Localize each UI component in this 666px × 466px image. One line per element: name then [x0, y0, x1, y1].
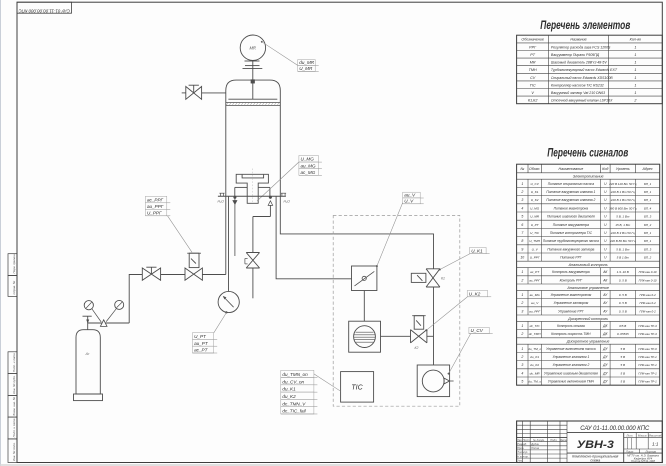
svg-text:U_TIC: U_TIC: [530, 231, 540, 235]
svg-text:du_K2: du_K2: [282, 394, 296, 399]
vent valve (napusk): [245, 253, 260, 269]
wire air inlet horizontal: [253, 216, 271, 218]
label du_MR: [298, 60, 319, 66]
svg-text:Обозн.: Обозн.: [529, 167, 540, 171]
leader V attach dot: [376, 265, 378, 267]
svg-text:Турбомолекулярный насос Edward: Турбомолекулярный насос Edwards EXT: [551, 68, 618, 72]
svg-text:№ докум.: № докум.: [533, 438, 545, 442]
wire TMN to K2: [381, 335, 411, 337]
svg-text:ПЛК-кан 0-10: ПЛК-кан 0-10: [639, 270, 657, 274]
reducer PPG inlet wire: [88, 322, 130, 324]
leader V: [377, 203, 403, 266]
valve K1 actuator: [411, 273, 426, 282]
air inlet port (dot): [269, 196, 272, 199]
left margin column: Перв. примен.: [8, 254, 17, 276]
svg-text:Питание РРГ: Питание РРГ: [560, 256, 582, 260]
svg-text:Управление РРГ: Управление РРГ: [558, 309, 584, 313]
svg-text:Группа МТ11-19М: Группа МТ11-19М: [631, 459, 655, 463]
svg-text:du_K2: du_K2: [530, 363, 539, 367]
wire gauge tap: [228, 196, 230, 291]
svg-text:6: 6: [521, 223, 523, 227]
svg-text:4: 4: [521, 206, 523, 210]
vessel gasket band: [226, 102, 280, 105]
svg-text:ac_РРГ: ac_РРГ: [529, 278, 540, 282]
svg-text:ПЛК-кан 0-2: ПЛК-кан 0-2: [639, 293, 656, 297]
manual valve (gas line): [142, 267, 160, 280]
svg-text:Электропитание: Электропитание: [573, 175, 604, 179]
svg-text:ac_PT: ac_PT: [530, 270, 540, 274]
left margin column: Инв. № дубл.: [8, 374, 17, 396]
svg-text:К2: К2: [415, 346, 419, 350]
svg-text:U: U: [604, 182, 607, 186]
svg-text:0..5 В: 0..5 В: [619, 293, 627, 297]
svg-text:Инв. № подл.: Инв. № подл.: [12, 442, 16, 461]
svg-text:Т.контр.: Т.контр.: [517, 450, 528, 454]
svg-text:du_K1: du_K1: [530, 355, 539, 359]
leader K1 attach dot: [439, 269, 441, 271]
wire V to TMN: [363, 291, 365, 322]
svg-text:5 В: 5 В: [621, 363, 626, 367]
svg-text:БП_3: БП_3: [644, 247, 652, 251]
svg-text:U: U: [604, 223, 607, 227]
svg-text:Контроль вакуумметра: Контроль вакуумметра: [552, 270, 590, 274]
svg-text:САУ 01-11.00.00.000 КПС: САУ 01-11.00.00.000 КПС: [580, 425, 649, 432]
svg-text:2: 2: [633, 99, 636, 103]
svg-text:БП_1: БП_1: [644, 190, 652, 194]
svg-text:Вакуумметр Пирани Р505ПД: Вакуумметр Пирани Р505ПД: [551, 53, 600, 57]
svg-text:5 В: 5 В: [621, 347, 626, 351]
svg-text:dc_TМН: dc_TМН: [529, 332, 541, 336]
svg-text:H₂O: H₂O: [284, 199, 291, 203]
svg-text:1: 1: [634, 53, 636, 57]
flow regulator PPG actuator: [187, 253, 201, 267]
svg-text:Отсечной вакуумный клапан LSP1: Отсечной вакуумный клапан LSP16X: [551, 99, 613, 103]
svg-text:7: 7: [521, 231, 524, 235]
svg-text:АК: АК: [602, 278, 608, 282]
svg-text:Справ. №: Справ. №: [12, 280, 16, 294]
svg-text:1: 1: [634, 45, 636, 49]
leader CV attach dot: [448, 373, 450, 375]
svg-text:БП_1: БП_1: [644, 198, 652, 202]
svg-text:Контроль скорость ТМН: Контроль скорость ТМН: [551, 332, 591, 336]
svg-text:2: 2: [520, 278, 523, 282]
label U_CV: [469, 327, 493, 333]
title block: [517, 421, 663, 463]
wire to vent valve: [252, 217, 254, 253]
svg-text:U: U: [604, 231, 607, 235]
svg-text:9: 9: [521, 247, 523, 251]
vessel (vacuum chamber) outline: [226, 80, 280, 196]
svg-text:dc_TIC: dc_TIC: [530, 324, 541, 328]
svg-text:U: U: [604, 247, 607, 251]
stamp box (rotated doc number): [17, 2, 72, 13]
svg-text:УВН-3: УВН-3: [577, 439, 614, 451]
label U_K1: [470, 247, 490, 253]
svg-text:ТМН: ТМН: [529, 68, 537, 72]
leader K1: [440, 254, 470, 270]
svg-text:dc_TMN_V: dc_TMN_V: [282, 401, 306, 406]
svg-text:8: 8: [521, 239, 523, 243]
svg-text:Питание вакуумного затвора: Питание вакуумного затвора: [547, 247, 594, 251]
svg-text:0..5 В: 0..5 В: [619, 309, 627, 313]
svg-text:схема: схема: [590, 459, 600, 463]
svg-text:5: 5: [521, 380, 523, 384]
svg-text:dc_TIC_fail: dc_TIC_fail: [282, 409, 306, 414]
svg-text:Масштаб: Масштаб: [648, 433, 662, 437]
svg-text:1.9..10 В: 1.9..10 В: [617, 270, 629, 274]
svg-text:du_TМ_o: du_TМ_o: [528, 380, 541, 384]
svg-text:U: U: [604, 256, 607, 260]
gas bottle Ar: [74, 330, 103, 401]
svg-text:5: 5: [521, 215, 523, 219]
label ac_MG: [299, 169, 322, 176]
wire K1 down to CV: [433, 287, 435, 365]
svg-text:ДУ: ДУ: [602, 347, 608, 351]
svg-text:Питание вакуумного клапана 1: Питание вакуумного клапана 1: [546, 190, 595, 194]
magnetron MG window recess: [242, 175, 264, 178]
leader PPG: [168, 216, 193, 253]
svg-text:ПЛК-кан ТР-3: ПЛК-кан ТР-3: [638, 324, 657, 328]
coupling: [243, 61, 263, 68]
svg-text:3: 3: [521, 198, 523, 202]
svg-text:Уровень: Уровень: [616, 167, 630, 171]
svg-text:Управление включением ТМН: Управление включением ТМН: [548, 380, 595, 384]
svg-text:au_PPГ: au_PPГ: [147, 204, 164, 209]
svg-text:Дата: Дата: [559, 438, 568, 442]
svg-text:220 В 80 Вт 50 Гц: 220 В 80 Вт 50 Гц: [609, 239, 636, 243]
svg-text:Аналоговый контроль: Аналоговый контроль: [568, 263, 608, 267]
svg-text:au_V: au_V: [404, 193, 416, 198]
svg-text:U_V: U_V: [404, 198, 414, 203]
left margin column: Подп. и дата: [8, 417, 17, 439]
svg-text:ДК: ДК: [602, 324, 608, 328]
svg-text:ac_MG: ac_MG: [301, 170, 316, 175]
left margin column: Взам. инв. №: [8, 395, 17, 417]
wire between gas valves: [161, 274, 185, 276]
svg-text:Управление затвором: Управление затвором: [554, 301, 589, 305]
svg-text:MR: MR: [249, 46, 256, 51]
svg-text:ДУ: ДУ: [602, 355, 608, 359]
svg-text:5 В: 5 В: [621, 380, 626, 384]
label U_MR: [298, 66, 319, 72]
svg-text:au_V: au_V: [531, 301, 539, 305]
svg-text:Контроль РРГ: Контроль РРГ: [560, 278, 583, 282]
svg-text:du_MR: du_MR: [530, 371, 541, 375]
left margin column: Инв. № подл.: [8, 439, 17, 463]
svg-text:Управление магнетроном: Управление магнетроном: [550, 293, 592, 297]
leader K2: [426, 297, 467, 330]
left margin column: Справ. №: [8, 276, 17, 297]
valve K1: [426, 269, 445, 287]
valve VE (chamber vent, manual): [186, 85, 202, 99]
svg-text:au_PT: au_PT: [194, 341, 209, 346]
svg-text:du_CV_on: du_CV_on: [282, 379, 304, 384]
svg-text:Питание магнетрона: Питание магнетрона: [554, 206, 589, 210]
svg-text:au_MG: au_MG: [301, 163, 316, 168]
svg-text:БП_4: БП_4: [644, 206, 652, 210]
svg-text:Лит.: Лит.: [625, 433, 633, 437]
svg-text:4: 4: [521, 371, 523, 375]
svg-text:АУ: АУ: [602, 301, 608, 305]
svg-text:АУ: АУ: [602, 293, 608, 297]
label du_K2: [281, 392, 318, 399]
svg-text:du_K1: du_K1: [282, 387, 296, 392]
svg-text:ДУ: ДУ: [602, 371, 608, 375]
label au_V: [403, 192, 424, 198]
controller TIC: [341, 372, 374, 403]
turbomolecular pump TMN: [349, 321, 381, 352]
svg-text:АУ: АУ: [602, 309, 608, 313]
svg-text:1: 1: [634, 76, 636, 80]
svg-text:ПЛК-кан ТР-1: ПЛК-кан ТР-1: [638, 371, 657, 375]
svg-text:1: 1: [634, 61, 636, 65]
svg-text:ПЛК-кан ТР-1: ПЛК-кан ТР-1: [638, 380, 657, 384]
label U_V: [403, 198, 424, 204]
svg-text:U_MG: U_MG: [301, 157, 315, 162]
svg-text:U_TMН: U_TMН: [529, 239, 540, 243]
svg-text:ПЛК-кан ТР-1: ПЛК-кан ТР-1: [638, 355, 657, 359]
svg-text:U_PPГ: U_PPГ: [147, 210, 162, 215]
svg-text:2: 2: [520, 332, 523, 336]
svg-text:Подп. и дата: Подп. и дата: [12, 418, 16, 437]
label au_PPГ: [145, 203, 170, 210]
svg-text:U: U: [604, 215, 607, 219]
svg-text:V: V: [531, 91, 534, 95]
leader K2 attach dot: [426, 329, 428, 331]
label dc_TIC_fail: [281, 407, 318, 414]
svg-text:Вакуумный затвор Vat 210 DN63: Вакуумный затвор Vat 210 DN63: [551, 91, 605, 95]
leader PT attach dot: [225, 311, 227, 313]
svg-text:1: 1: [521, 270, 523, 274]
wire valve VE to vessel: [202, 92, 226, 94]
svg-text:1: 1: [521, 347, 523, 351]
svg-text:ПЛК-кан 0-2: ПЛК-кан 0-2: [639, 301, 656, 305]
svg-text:Наименование: Наименование: [558, 167, 583, 171]
svg-text:РРГ: РРГ: [529, 45, 537, 49]
svg-text:АК: АК: [602, 270, 608, 274]
svg-text:U_K1: U_K1: [531, 190, 539, 194]
svg-text:Н.контр.: Н.контр.: [517, 454, 529, 458]
node: shaft entry (black square): [251, 80, 255, 84]
svg-text:Шаговый двигатель 28BYJ-48-5V: Шаговый двигатель 28BYJ-48-5V: [551, 61, 607, 65]
svg-text:220 В 1 Вт 50 Гц: 220 В 1 Вт 50 Гц: [610, 190, 635, 194]
vessel inner flange line: [228, 98, 277, 100]
svg-text:U: U: [604, 206, 607, 210]
air inlet arrow up: [268, 201, 273, 206]
label U_MG: [299, 156, 322, 163]
magnetron MG centerline: [252, 169, 254, 204]
bottle valve: [83, 316, 92, 330]
leader CV: [449, 334, 471, 374]
water drain port (dot): [234, 196, 237, 199]
wire PPG to chamber: [202, 274, 225, 276]
wire chamber to valve K1: [280, 196, 433, 268]
svg-text:5 В, 1 Вт: 5 В, 1 Вт: [616, 247, 630, 251]
svg-text:ПЛК-кан ТР-0: ПЛК-кан ТР-0: [638, 347, 657, 351]
svg-text:U_K2: U_K2: [531, 198, 539, 202]
leader TIC: [314, 374, 341, 391]
svg-text:U_PT: U_PT: [531, 223, 540, 227]
leader PT: [214, 313, 227, 333]
svg-text:H₂O: H₂O: [218, 199, 225, 203]
svg-text:5 В 1 Вт: 5 В 1 Вт: [617, 256, 630, 260]
reducer gauge 2: [115, 300, 124, 309]
label ac_PT: [193, 346, 218, 353]
svg-text:5 В, 1 Вт: 5 В, 1 Вт: [616, 215, 630, 219]
svg-text:220 В 120 Вт 50 Гц: 220 В 120 Вт 50 Гц: [608, 182, 637, 186]
svg-text:220 В 3 Вт 50 Гц: 220 В 3 Вт 50 Гц: [610, 231, 635, 235]
water drain wire: [234, 199, 236, 257]
svg-text:1: 1: [634, 68, 636, 72]
svg-text:Дискретный контроль: Дискретный контроль: [567, 317, 608, 321]
svg-text:Утв.: Утв.: [517, 458, 523, 462]
svg-text:U_K2: U_K2: [469, 291, 481, 296]
label U_K2: [467, 291, 491, 297]
vent valve outlet wire: [252, 268, 254, 298]
svg-text:U_CV: U_CV: [531, 182, 540, 186]
wire air inlet down: [269, 205, 271, 216]
svg-text:Питание контроллера ТIC: Питание контроллера ТIC: [550, 231, 593, 235]
svg-text:Ar: Ar: [85, 351, 91, 356]
svg-text:Питание шагового двигателя: Питание шагового двигателя: [547, 215, 595, 219]
svg-text:ТIС: ТIС: [351, 384, 363, 391]
svg-text:Подп.: Подп.: [550, 438, 557, 442]
svg-text:U_CV: U_CV: [471, 328, 484, 333]
wire riser to gas line: [129, 275, 142, 324]
svg-text:U_K1: U_K1: [471, 248, 483, 253]
wire reducer to gauge 2: [106, 309, 116, 322]
label au_MG: [299, 162, 322, 169]
svg-text:10: 10: [520, 256, 524, 260]
svg-text:Питание турбомолекулярного нас: Питание турбомолекулярного насоса: [543, 239, 599, 243]
svg-text:MR: MR: [530, 61, 536, 65]
magnetron MG body (T-shape): [236, 174, 268, 203]
valve K2: [411, 330, 427, 350]
svg-text:К1: К1: [441, 277, 445, 281]
table: Perechen elementov: [517, 35, 663, 104]
svg-text:U: U: [604, 198, 607, 202]
svg-text:Перечень элементов: Перечень элементов: [540, 20, 630, 32]
bottom flange plate: [218, 195, 286, 197]
svg-text:du_TМ_o: du_TМ_o: [528, 347, 541, 351]
svg-text:1:1: 1:1: [652, 441, 659, 446]
svg-text:БП_2: БП_2: [644, 223, 652, 227]
pressure gauge PT: [218, 291, 239, 312]
svg-text:du_MR: du_MR: [299, 60, 314, 65]
svg-text:Код: Код: [602, 167, 608, 171]
reducer gauge 1: [84, 301, 93, 310]
svg-text:Подп. и дата: Подп. и дата: [12, 353, 16, 372]
svg-text:3: 3: [521, 363, 523, 367]
wire chamber to gate valve V: [276, 196, 351, 278]
svg-text:Обозначение: Обозначение: [521, 38, 544, 42]
svg-text:№: №: [520, 167, 524, 171]
svg-text:Кол-во: Кол-во: [630, 38, 641, 42]
svg-text:Аналоговое управление: Аналоговое управление: [566, 286, 608, 290]
svg-text:2: 2: [520, 355, 523, 359]
svg-text:БП_1: БП_1: [644, 231, 652, 235]
svg-text:2: 2: [520, 301, 523, 305]
svg-text:Дудин: Дудин: [530, 442, 539, 446]
svg-text:Питание вакуумного клапана 2: Питание вакуумного клапана 2: [546, 198, 595, 202]
svg-text:du_TMN_on: du_TMN_on: [282, 372, 308, 377]
svg-text:Лист: Лист: [522, 438, 531, 442]
svg-text:1: 1: [521, 293, 523, 297]
label dc_TMN_V: [281, 399, 318, 406]
scroll pump CV: [417, 365, 453, 397]
svg-text:БП_1: БП_1: [644, 182, 652, 186]
svg-text:Адрес: Адрес: [642, 167, 653, 171]
page edge: [0, 0, 2, 466]
label au_PT: [193, 339, 218, 346]
wire gas inlet (left wall down): [225, 196, 227, 274]
svg-text:au_РРГ: au_РРГ: [529, 309, 540, 313]
flange end left: [219, 193, 224, 196]
svg-text:2: 2: [520, 190, 523, 194]
svg-text:1: 1: [521, 182, 523, 186]
svg-text:U_V: U_V: [532, 247, 539, 251]
svg-text:au_MG: au_MG: [530, 293, 541, 297]
svg-text:U_MR: U_MR: [299, 66, 313, 71]
svg-text:Спиральный насос Edwards XDS10: Спиральный насос Edwards XDS100B: [551, 76, 613, 80]
wire reducer to gauge 1: [92, 309, 101, 322]
svg-text:Пров.: Пров.: [517, 446, 524, 450]
svg-text:Управление клапаном 2: Управление клапаном 2: [553, 363, 590, 367]
svg-text:ac_PPГ: ac_PPГ: [147, 197, 164, 202]
svg-text:U_РРГ: U_РРГ: [530, 256, 540, 260]
svg-text:ПЛК-кан 0-2: ПЛК-кан 0-2: [639, 309, 656, 313]
dashed enclosure (pump unit): [333, 216, 460, 407]
magnetron MG skirt flange: [235, 187, 270, 196]
svg-text:Управление включением насоса: Управление включением насоса: [546, 347, 596, 351]
svg-text:U_MR: U_MR: [530, 215, 540, 219]
svg-text:1: 1: [521, 324, 523, 328]
table: Perechen signalov: [517, 164, 660, 385]
svg-text:Контроллер насосов TIC RS232: Контроллер насосов TIC RS232: [551, 83, 604, 87]
svg-text:3: 3: [521, 309, 523, 313]
label du_K1: [281, 385, 318, 392]
svg-text:5 В: 5 В: [621, 371, 626, 375]
svg-text:Управление шаговым двигателем: Управление шаговым двигателем: [544, 371, 598, 375]
label U_PPГ: [145, 209, 170, 216]
label U_PT: [193, 333, 218, 340]
svg-text:Регулятор расхода газа FCS 120: Регулятор расхода газа FCS 1200S: [551, 45, 611, 49]
svg-text:Питание спирального насоса: Питание спирального насоса: [548, 182, 594, 186]
label du_TMN_on: [281, 370, 318, 377]
svg-text:К1,К2: К1,К2: [528, 99, 537, 103]
svg-text:U: U: [604, 239, 607, 243]
svg-text:Масса: Масса: [638, 433, 647, 437]
svg-text:Перечень сигналов: Перечень сигналов: [547, 148, 628, 160]
flow regulator PPG valve: [185, 268, 202, 280]
svg-text:ПЛК-кан ТР-3: ПЛК-кан ТР-3: [638, 332, 657, 336]
svg-text:Попов: Попов: [531, 446, 539, 450]
left margin column: Подп. и дата: [8, 352, 17, 374]
leader MG: [257, 162, 299, 201]
svg-text:0..5 В: 0..5 В: [619, 301, 627, 305]
svg-text:0..65535: 0..65535: [617, 332, 629, 336]
gate valve V: [352, 266, 377, 291]
svg-text:Взам. инв. №: Взам. инв. №: [12, 396, 16, 415]
svg-text:Дискретное управление: Дискретное управление: [566, 340, 610, 344]
svg-text:1: 1: [634, 91, 636, 95]
svg-text:5 В: 5 В: [621, 355, 626, 359]
svg-text:U_PT: U_PT: [194, 334, 207, 339]
svg-text:ДК: ДК: [602, 332, 608, 336]
svg-text:Изм.: Изм.: [517, 438, 523, 442]
svg-text:Перв. примен.: Перв. примен.: [12, 253, 16, 273]
svg-text:Название: Название: [570, 38, 586, 42]
